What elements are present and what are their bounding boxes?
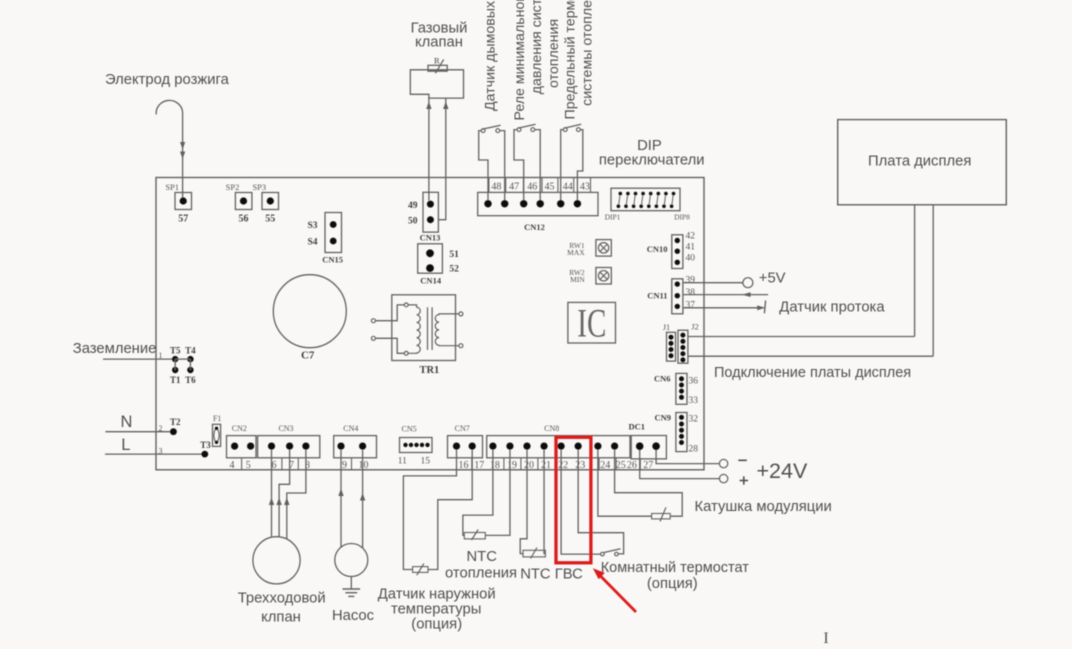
- svg-text:5: 5: [246, 460, 251, 471]
- svg-text:56: 56: [239, 214, 249, 225]
- svg-text:6: 6: [272, 460, 277, 471]
- svg-text:33: 33: [689, 396, 699, 406]
- svg-text:DIP1: DIP1: [605, 213, 621, 222]
- svg-text:11: 11: [398, 457, 407, 467]
- svg-text:Катушка модуляции: Катушка модуляции: [695, 499, 832, 515]
- svg-text:S3: S3: [307, 221, 317, 231]
- svg-text:52: 52: [449, 265, 459, 275]
- svg-text:25: 25: [616, 460, 626, 471]
- svg-text:18: 18: [490, 460, 500, 471]
- svg-text:T1: T1: [170, 375, 181, 385]
- svg-text:47: 47: [509, 182, 519, 193]
- svg-text:43: 43: [580, 182, 590, 193]
- svg-text:T4: T4: [185, 346, 196, 356]
- svg-text:Подключение платы дисплея: Подключение платы дисплея: [714, 365, 911, 381]
- svg-text:38: 38: [686, 288, 696, 298]
- svg-text:17: 17: [474, 460, 484, 471]
- svg-text:I: I: [823, 630, 828, 644]
- svg-text:Комнатный термостат: Комнатный термостат: [601, 560, 750, 576]
- svg-text:Насос: Насос: [332, 608, 375, 624]
- svg-text:системы отопления: системы отопления: [580, 0, 596, 106]
- svg-text:NTC ГВС: NTC ГВС: [520, 567, 583, 583]
- svg-text:Датчик наружной: Датчик наружной: [378, 587, 496, 603]
- svg-text:SP3: SP3: [252, 182, 266, 192]
- svg-text:32: 32: [689, 414, 699, 424]
- svg-text:55: 55: [265, 214, 275, 225]
- svg-text:R: R: [434, 56, 440, 66]
- svg-text:CN8: CN8: [544, 424, 559, 433]
- svg-text:MIN: MIN: [570, 275, 585, 284]
- svg-text:Заземление: Заземление: [73, 341, 157, 357]
- svg-text:57: 57: [178, 214, 188, 225]
- svg-text:9: 9: [342, 460, 347, 471]
- svg-text:(опция): (опция): [411, 617, 462, 633]
- svg-text:Датчик дымовых газов: Датчик дымовых газов: [482, 0, 498, 111]
- svg-text:NTC: NTC: [466, 549, 497, 565]
- svg-text:51: 51: [449, 250, 459, 260]
- svg-text:N: N: [120, 413, 132, 431]
- svg-text:клпан: клпан: [261, 610, 301, 626]
- svg-text:+24V: +24V: [757, 459, 808, 483]
- svg-text:CN15: CN15: [322, 255, 343, 265]
- svg-text:клапан: клапан: [415, 35, 463, 51]
- svg-text:DIP8: DIP8: [674, 213, 690, 222]
- svg-text:CN13: CN13: [420, 233, 441, 243]
- svg-text:36: 36: [689, 376, 699, 386]
- svg-text:T2: T2: [170, 417, 181, 427]
- svg-text:21: 21: [541, 460, 551, 471]
- svg-text:Плата дисплея: Плата дисплея: [868, 154, 971, 170]
- svg-text:CN9: CN9: [654, 413, 671, 423]
- svg-text:39: 39: [686, 276, 696, 286]
- svg-text:+5V: +5V: [759, 271, 786, 287]
- svg-text:40: 40: [686, 254, 696, 264]
- svg-text:давления системы: давления системы: [529, 0, 545, 94]
- svg-text:Датчик протока: Датчик протока: [779, 300, 885, 316]
- svg-text:20: 20: [524, 460, 534, 471]
- svg-text:50: 50: [408, 217, 418, 227]
- svg-text:48: 48: [491, 182, 501, 193]
- svg-text:MAX: MAX: [567, 248, 585, 257]
- svg-text:42: 42: [686, 232, 696, 242]
- svg-text:28: 28: [689, 445, 699, 455]
- svg-text:CN2: CN2: [232, 424, 247, 433]
- svg-text:CN12: CN12: [524, 222, 545, 232]
- svg-text:44: 44: [563, 182, 573, 193]
- svg-text:T3: T3: [200, 440, 211, 450]
- svg-text:Реле минимального: Реле минимального: [512, 0, 528, 121]
- svg-text:CN10: CN10: [647, 244, 668, 254]
- svg-text:(опция): (опция): [647, 576, 698, 592]
- svg-text:DC1: DC1: [629, 422, 646, 432]
- svg-text:IC: IC: [577, 301, 606, 346]
- svg-text:J1: J1: [663, 322, 671, 332]
- svg-text:24: 24: [600, 460, 610, 471]
- svg-text:41: 41: [686, 243, 696, 253]
- svg-text:переключатели: переключатели: [599, 153, 705, 169]
- svg-text:отопления: отопления: [546, 19, 562, 88]
- svg-text:отопления: отопления: [445, 566, 517, 582]
- svg-text:CN14: CN14: [420, 275, 442, 285]
- svg-text:45: 45: [545, 182, 555, 193]
- svg-text:C7: C7: [301, 350, 315, 362]
- svg-text:23: 23: [575, 460, 585, 471]
- svg-text:2: 2: [159, 424, 163, 433]
- svg-text:CN7: CN7: [455, 424, 470, 433]
- svg-text:температуры: температуры: [391, 602, 481, 618]
- svg-text:CN4: CN4: [343, 424, 358, 433]
- svg-text:4: 4: [230, 460, 235, 471]
- svg-text:CN5: CN5: [402, 425, 417, 434]
- svg-text:15: 15: [420, 457, 430, 467]
- svg-text:26: 26: [627, 460, 637, 471]
- svg-text:TR1: TR1: [419, 365, 439, 376]
- svg-text:Электрод розжига: Электрод розжига: [105, 72, 230, 88]
- svg-text:Предельный термостат: Предельный термостат: [563, 0, 579, 120]
- svg-text:S4: S4: [307, 238, 317, 248]
- svg-text:27: 27: [643, 460, 653, 471]
- svg-text:F1: F1: [213, 414, 221, 423]
- svg-text:SP1: SP1: [165, 182, 179, 192]
- svg-text:10: 10: [359, 460, 369, 471]
- svg-text:T5: T5: [170, 346, 181, 356]
- svg-text:SP2: SP2: [226, 182, 240, 192]
- svg-text:19: 19: [507, 460, 517, 471]
- svg-text:T6: T6: [185, 375, 196, 385]
- svg-text:1: 1: [159, 351, 163, 360]
- svg-text:L: L: [121, 436, 130, 454]
- svg-text:16: 16: [459, 460, 469, 471]
- svg-text:22: 22: [558, 460, 568, 471]
- svg-text:37: 37: [686, 300, 696, 310]
- svg-text:Трехходовой: Трехходовой: [238, 591, 326, 607]
- svg-text:49: 49: [408, 201, 418, 211]
- svg-text:J2: J2: [691, 322, 699, 332]
- svg-text:CN3: CN3: [278, 424, 293, 433]
- svg-text:46: 46: [527, 182, 537, 193]
- svg-text:CN11: CN11: [647, 291, 667, 301]
- svg-text:3: 3: [159, 447, 163, 456]
- svg-text:CN6: CN6: [654, 374, 671, 384]
